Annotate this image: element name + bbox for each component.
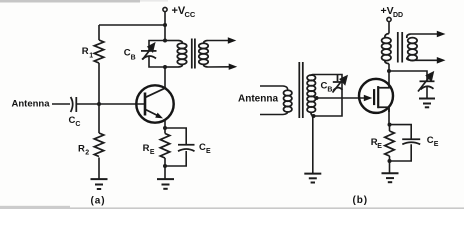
- scan smudge top band: [0, 0, 168, 3]
- capacitor CC: [71, 97, 77, 112]
- transformer T2 secondary coil (b): [407, 34, 417, 61]
- svg-text:C: C: [75, 121, 80, 128]
- wire tank to ground (b): [312, 116, 314, 174]
- svg-text:E: E: [206, 148, 211, 155]
- capacitor CE (b): [402, 139, 420, 144]
- wire primary to drain node: [388, 64, 390, 84]
- ground below RE (b): [382, 173, 399, 182]
- variable capacitor (b drain tank): [418, 73, 435, 92]
- node emitter bottom junction: [163, 164, 167, 168]
- svg-text:DD: DD: [393, 12, 403, 19]
- transformer T1 secondary coil (a): [199, 41, 208, 68]
- wire collector to tank: [164, 67, 166, 89]
- capacitor CE branch (b): [390, 125, 412, 161]
- wire rail down to tank top: [164, 25, 166, 41]
- wire output bottom (a) with arrow: [208, 64, 238, 70]
- wire R1 to base node: [98, 63, 100, 104]
- svg-text:CC: CC: [185, 10, 196, 19]
- scan smudge bottom band: [0, 206, 464, 209]
- variable capacitor CB (b): [333, 75, 347, 93]
- node rail junction: [163, 23, 167, 27]
- wire to ground (a emitter): [164, 166, 166, 179]
- svg-text:2: 2: [85, 149, 89, 156]
- node tank top junction: [163, 39, 167, 43]
- node coil tap junction: [315, 96, 319, 100]
- ground below tank (b): [304, 174, 321, 183]
- transformer T3 secondary coil (b): [307, 75, 315, 117]
- svg-text:Antenna: Antenna: [12, 99, 51, 110]
- wire output bottom (b) with arrow: [411, 57, 446, 64]
- capacitor CE (a): [178, 145, 195, 151]
- svg-text:C: C: [427, 135, 434, 146]
- svg-text:+V: +V: [381, 5, 394, 17]
- node source junction: [388, 123, 392, 127]
- label +VCC: [172, 5, 196, 19]
- wire CC to base: [77, 103, 144, 105]
- wire to ground (b source): [389, 161, 391, 173]
- svg-text:E: E: [150, 149, 155, 156]
- resistor RE (a): [160, 128, 169, 166]
- variable capacitor CB (a): [141, 44, 157, 60]
- node emitter junction: [163, 126, 167, 130]
- transformer T2 core: [398, 32, 402, 63]
- wire tuning cap to ground: [426, 87, 428, 99]
- svg-text:1: 1: [89, 53, 93, 60]
- svg-text:E: E: [434, 141, 439, 148]
- tank rectangle (b): top edge, right side, bottom edge: [314, 75, 343, 117]
- label CE (a): [199, 142, 211, 155]
- wire antenna to CC: [52, 103, 70, 105]
- wire emitter down: [164, 120, 166, 129]
- svg-text:(a): (a): [91, 196, 106, 207]
- label R2: [78, 143, 89, 156]
- label R1: [82, 46, 93, 59]
- resistor RE (b): [385, 125, 394, 161]
- label RE (a): [143, 143, 155, 156]
- wire source down: [388, 107, 390, 124]
- node source bottom junction: [388, 159, 392, 163]
- label CE (b): [427, 135, 439, 148]
- transformer T1 primary coil (a): [177, 41, 186, 68]
- label +VDD: [381, 5, 404, 19]
- tank rectangle (a): top edge, left side, bottom edge: [149, 41, 179, 68]
- node drain junction: [387, 69, 391, 73]
- transistor Q2 (FET): [359, 79, 393, 113]
- label CB (a): [124, 48, 136, 62]
- svg-text:R: R: [78, 143, 85, 154]
- svg-text:R: R: [82, 46, 89, 57]
- capacitor CE branch (a): [165, 128, 186, 166]
- wire gate tap to FET: [317, 97, 367, 99]
- wire VCC rail to R1: [99, 25, 165, 40]
- node tank bottom junction: [312, 114, 316, 118]
- resistor R1: [94, 40, 103, 63]
- ground below R2: [91, 179, 108, 189]
- transformer T3 core: [299, 62, 303, 118]
- wire R2 to ground: [98, 158, 100, 180]
- transformer T1 core: [192, 39, 195, 69]
- svg-text:B: B: [131, 54, 136, 61]
- label RE (b): [371, 137, 383, 150]
- svg-text:C: C: [199, 142, 206, 153]
- svg-text:B: B: [327, 87, 332, 94]
- node +VDD terminal: [387, 17, 391, 33]
- node +VCC terminal: [163, 7, 167, 25]
- transistor Q1: [136, 85, 173, 122]
- antenna input coil (b): [284, 90, 292, 112]
- label CC: [69, 115, 81, 128]
- node tank bottom junction: [163, 65, 167, 69]
- wire output top (a) with arrow: [208, 37, 237, 43]
- svg-text:(b): (b): [353, 195, 368, 206]
- wire output top (b) with arrow: [411, 31, 446, 38]
- antenna coil leads (b): [260, 86, 288, 115]
- svg-text:Antenna: Antenna: [238, 94, 278, 105]
- wire drain node to tuning cap: [389, 71, 427, 80]
- svg-text:R: R: [143, 143, 150, 154]
- transformer T2 primary coil (b): [382, 34, 391, 64]
- ground below RE (a): [157, 179, 174, 189]
- ground below tuning cap: [419, 99, 435, 108]
- label CB (b): [321, 80, 333, 93]
- svg-text:E: E: [377, 143, 382, 150]
- resistor R2: [94, 104, 103, 156]
- node base junction: [97, 102, 101, 106]
